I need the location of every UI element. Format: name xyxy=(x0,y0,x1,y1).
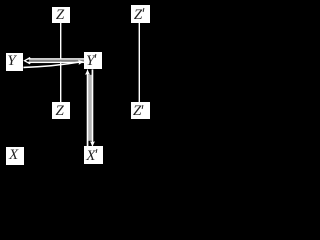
node Y' (middle center) xyxy=(84,52,102,69)
double arrow V-head at Y xyxy=(23,57,30,64)
node Z (lower center) xyxy=(52,102,70,119)
node Z (top) xyxy=(52,7,70,23)
node Y (middle left) xyxy=(6,53,23,71)
double arrow Y' to Y : upper shaft xyxy=(28,58,84,59)
arrow X' to Y' : left shaft xyxy=(87,74,89,146)
single arrow Y to Y' : slanted shaft xyxy=(23,62,79,67)
node Z' (top right) xyxy=(131,5,150,23)
arrow Y' to X' : right shaft xyxy=(92,69,94,142)
arrowhead down at X' xyxy=(90,141,95,147)
wire Z'(top) to Z'(bottom) xyxy=(139,21,140,102)
vertical pair : gray between shafts xyxy=(88,75,91,141)
double arrow Y' to Y : gray between shafts xyxy=(29,60,84,62)
arrowhead up at Y' xyxy=(85,69,90,75)
single arrow tilted head at Y' xyxy=(78,59,84,65)
node Z' (lower right) xyxy=(131,102,150,119)
node X' (bottom center) xyxy=(84,146,103,164)
wire Z(top) to Z(bottom) xyxy=(60,22,61,102)
double arrow Y' to Y : lower shaft xyxy=(28,62,84,63)
node X (bottom left) xyxy=(6,147,24,165)
